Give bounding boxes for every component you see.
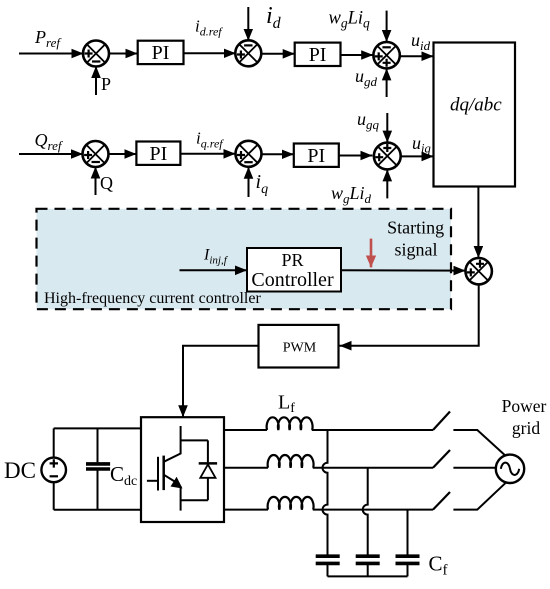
wire dc top rail (54, 428, 141, 457)
svg-text:iq.ref: iq.ref (196, 129, 224, 151)
wire PI3 to S5 (180, 153, 235, 155)
wire id feedback (247, 7, 249, 41)
svg-text:Pref: Pref (34, 27, 62, 50)
wire PI2 to S3 (341, 54, 373, 56)
wire phase B (224, 467, 268, 469)
wire Iinj input (180, 269, 248, 271)
wire S5 to PI4 (262, 153, 294, 155)
ac source grid (496, 455, 524, 483)
svg-text:Power: Power (502, 396, 547, 416)
diode D1 (181, 440, 218, 500)
switch C (433, 492, 450, 510)
wire ugq feedforward (386, 113, 388, 143)
capacitor Cdc (86, 428, 110, 509)
capacitor Cf3 (396, 556, 420, 576)
svg-text:PI: PI (309, 44, 327, 66)
wire dc bottom rail (54, 482, 141, 510)
svg-text:wgLiq: wgLiq (329, 9, 371, 31)
svg-text:Cdc: Cdc (110, 462, 137, 489)
block PI1 (138, 41, 184, 64)
svg-text:Q: Q (100, 173, 113, 193)
summing junction S5 (236, 141, 262, 167)
starting signal red arrow (370, 239, 373, 268)
svg-text:Controller: Controller (251, 269, 334, 291)
capacitor Cf1 (316, 556, 340, 576)
svg-text:uid: uid (411, 30, 431, 53)
wire PI1 to S2 (184, 52, 236, 54)
wire Q feedback (95, 167, 97, 196)
svg-text:Lf: Lf (278, 392, 295, 417)
block dq/abc (434, 43, 516, 187)
wire S2 to PI2 (261, 53, 295, 55)
svg-text:PR: PR (281, 250, 303, 270)
wire phase A (224, 429, 267, 431)
wire tap A with hops (323, 430, 328, 555)
wire Pref input (19, 53, 84, 55)
block PWM (259, 325, 339, 368)
capacitor Cf2 (356, 556, 380, 576)
wire S7 to PWM (340, 284, 479, 345)
summing junction S7 (466, 258, 492, 284)
summing junction S6 (374, 143, 401, 170)
wire tap C (407, 510, 409, 556)
wire iq feedback (248, 167, 250, 197)
summing junction S3 (373, 42, 399, 68)
svg-text:PI: PI (307, 145, 325, 167)
wire PR to S7 (341, 269, 466, 271)
wire phase C cont (313, 509, 433, 511)
wire phase B cont (313, 467, 433, 469)
block PR controller (247, 248, 341, 292)
hf controller dashed region (37, 209, 452, 309)
block inverter (141, 417, 224, 522)
svg-text:Starting: Starting (387, 218, 444, 238)
inductor Lf A (267, 417, 313, 430)
summing junction S2 (235, 40, 261, 66)
switch A (433, 412, 450, 431)
svg-text:signal: signal (395, 240, 438, 260)
igbt Q1 (147, 426, 183, 511)
svg-text:ugd: ugd (355, 66, 378, 89)
wire phase A cont (312, 429, 433, 431)
switch B (433, 450, 450, 468)
svg-text:id: id (266, 3, 282, 32)
svg-text:Qref: Qref (35, 130, 64, 153)
inductor Lf B (268, 455, 314, 468)
wire S3 to dqabc (400, 55, 434, 57)
svg-text:PI: PI (150, 143, 168, 165)
svg-text:Cf: Cf (429, 552, 448, 579)
wire ugd feedforward (386, 68, 388, 97)
wire tap B with hop (363, 468, 368, 556)
wire cap bus (328, 575, 408, 577)
wire PWM to inverter (183, 346, 259, 418)
wire Qref input (19, 153, 83, 155)
summing junction S4 (83, 141, 109, 167)
svg-text:High-frequency current control: High-frequency current controller (44, 290, 261, 307)
block PI4 (294, 144, 339, 167)
svg-text:dq/abc: dq/abc (450, 95, 502, 116)
wire S6 to dqabc (401, 155, 434, 157)
wire S1 to PI1 (109, 53, 138, 55)
svg-text:uiq: uiq (412, 133, 431, 156)
svg-text:wgLid: wgLid (331, 183, 372, 206)
svg-text:iq: iq (256, 171, 269, 197)
svg-text:DC: DC (4, 458, 36, 483)
svg-text:PWM: PWM (283, 341, 317, 356)
svg-text:PI: PI (152, 42, 170, 64)
svg-text:grid: grid (512, 418, 540, 438)
wire P feedback (95, 66, 97, 95)
svg-text:id.ref: id.ref (195, 17, 223, 39)
wire PI4 to S6 (339, 155, 373, 157)
block PI3 (136, 142, 180, 165)
wire S4 to PI3 (108, 153, 136, 155)
block PI2 (295, 43, 341, 66)
wire dqabc output (477, 187, 479, 259)
wire phase C (224, 509, 268, 511)
summing junction S1 (83, 41, 109, 67)
inductor Lf C (268, 497, 314, 510)
wire wgLid feedforward (386, 169, 388, 198)
svg-text:P: P (101, 74, 111, 94)
svg-text:ugq: ugq (357, 109, 380, 132)
dc source V1 (41, 458, 66, 483)
wire wgLiq feedforward (386, 11, 388, 42)
